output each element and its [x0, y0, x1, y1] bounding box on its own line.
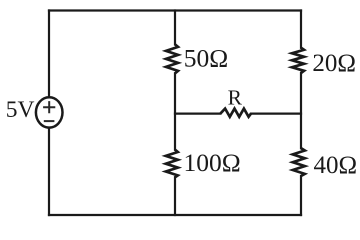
wire top — [49, 9, 301, 11]
resistor 20ohm zigzag — [292, 48, 304, 73]
wire right branch lower — [300, 176, 302, 215]
svg-text:40Ω: 40Ω — [314, 152, 358, 179]
voltage source minus sign — [44, 120, 55, 122]
wire middle branch center — [174, 73, 176, 149]
svg-text:50Ω: 50Ω — [184, 43, 228, 72]
wire right branch center — [300, 73, 302, 148]
svg-text:5V: 5V — [6, 97, 35, 123]
wire right branch upper — [300, 11, 302, 48]
svg-text:100Ω: 100Ω — [184, 148, 241, 177]
wire middle horizontal left — [175, 112, 220, 114]
wire bottom — [49, 214, 301, 216]
wire middle branch upper — [174, 11, 176, 45]
wire middle horizontal right — [251, 112, 301, 114]
voltage source V1 circle — [36, 97, 63, 127]
svg-text:R: R — [228, 85, 243, 109]
wire left — [48, 11, 50, 216]
wire middle branch lower — [174, 177, 176, 215]
resistor 100ohm zigzag — [166, 150, 178, 178]
resistor 40ohm zigzag — [293, 148, 305, 176]
resistor R zigzag — [220, 109, 251, 117]
svg-text:20Ω: 20Ω — [312, 50, 356, 77]
voltage source plus sign — [43, 101, 55, 113]
resistor 50ohm zigzag — [166, 44, 178, 73]
